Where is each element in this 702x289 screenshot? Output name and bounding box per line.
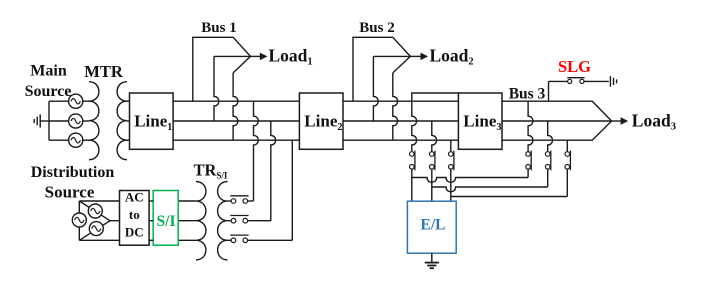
svg-text:Bus 3: Bus 3 [509,86,546,103]
svg-text:E/L: E/L [421,217,446,234]
svg-text:MTR: MTR [84,62,124,81]
svg-text:AC: AC [125,190,144,205]
svg-text:Source: Source [25,83,72,100]
svg-text:Line3: Line3 [463,112,501,133]
svg-text:Bus 1: Bus 1 [201,20,236,36]
svg-text:SLG: SLG [558,57,591,76]
svg-text:Load2: Load2 [430,45,474,67]
svg-text:Load3: Load3 [632,110,676,132]
svg-text:S/I: S/I [157,213,176,230]
svg-text:Distribution: Distribution [31,164,115,181]
svg-text:DC: DC [125,225,144,240]
svg-text:Line2: Line2 [304,112,342,133]
svg-text:Line1: Line1 [134,112,172,133]
svg-text:Bus 2: Bus 2 [359,20,394,36]
svg-text:to: to [129,207,140,222]
svg-text:Load1: Load1 [269,45,313,67]
svg-text:Source: Source [45,182,95,201]
svg-text:Main: Main [30,63,67,80]
